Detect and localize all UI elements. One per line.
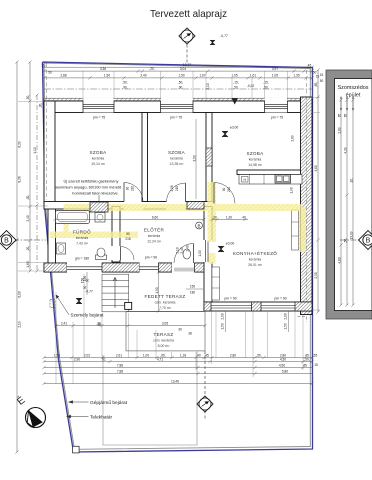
svg-text:csm. kerámia: csm. kerámia [153, 339, 174, 343]
svg-text:,50,: ,50, [233, 85, 238, 89]
bottom dim row 3 [42, 366, 312, 369]
szoba2 interior dim [195, 119, 197, 199]
door arc szoba2 [167, 183, 186, 202]
kitchen bottom hatched block left [204, 302, 211, 311]
svg-text:pm = 75: pm = 75 [271, 116, 283, 120]
svg-text:7,88: 7,88 [117, 369, 123, 373]
neighbour top small arrows [340, 97, 354, 111]
door arc furdo [121, 247, 135, 261]
svg-text:13,09: 13,09 [350, 231, 354, 239]
door arc konyha [214, 183, 235, 204]
svg-text:2,40: 2,40 [140, 74, 146, 78]
svg-text:2,00: 2,00 [221, 313, 225, 319]
bathtub [56, 211, 90, 224]
svg-text:kerámia: kerámia [148, 234, 161, 238]
svg-text:kerámia: kerámia [76, 236, 89, 240]
svg-text:,15,: ,15, [233, 81, 238, 85]
svg-text:,55: ,55 [313, 353, 318, 357]
kitchen counter [239, 175, 302, 185]
left wall top section [44, 101, 55, 207]
bottom wall entrance opening [67, 262, 102, 272]
svg-text:±0,00: ±0,00 [226, 242, 235, 246]
svg-text:2,10: 2,10 [206, 83, 210, 89]
kitchen bottom hatched pillar [252, 302, 262, 311]
svg-text:Új szerelt kettősfalú gázkémén: Új szerelt kettősfalú gázkémény [64, 179, 119, 184]
svg-text:1,18: 1,18 [180, 353, 186, 357]
bottom wall main [44, 263, 211, 272]
svg-text:85: 85 [338, 114, 342, 118]
szoba3 bottom wall [237, 170, 302, 175]
entrance door opening in bottom wall [172, 262, 195, 272]
svg-text:26,01 m²: 26,01 m² [248, 263, 263, 267]
svg-text:7,43 m²: 7,43 m² [76, 242, 89, 246]
fedett terasz vertical dim [158, 272, 160, 311]
svg-text:45: 45 [303, 363, 307, 367]
kitchen west wall [204, 207, 212, 312]
survey marker top [179, 28, 195, 63]
svg-text:,50,: ,50, [122, 81, 127, 85]
svg-text:,20,: ,20, [26, 246, 30, 251]
svg-text:2,88: 2,88 [60, 74, 66, 78]
bottom wall hatched block 2 [102, 263, 140, 272]
svg-text:210: 210 [227, 187, 231, 193]
hob [242, 177, 249, 183]
svg-text:2,00: 2,00 [284, 313, 288, 319]
svg-text:kerámia: kerámia [92, 157, 105, 161]
extension lines bottom [56, 274, 312, 384]
svg-text:4,71: 4,71 [157, 357, 163, 361]
svg-text:8,36: 8,36 [18, 176, 22, 182]
fedett terasz slab edge [129, 310, 204, 312]
svg-text:2,10: 2,10 [176, 247, 180, 253]
svg-text:40: 40 [242, 215, 246, 219]
corridor wall opening szoba2 door [166, 201, 186, 210]
terasz outline [126, 311, 205, 351]
neighbour building outer wall [326, 70, 372, 319]
svg-text:pm = 75: pm = 75 [170, 116, 182, 120]
svg-text:7,70 m²: 7,70 m² [159, 306, 172, 310]
svg-text:-0,77: -0,77 [220, 34, 228, 38]
level marker konyha [218, 242, 234, 253]
svg-text:,50,: ,50, [344, 238, 348, 243]
svg-text:2,80: 2,80 [230, 353, 236, 357]
kitchen bottom window 2 [261, 305, 295, 307]
svg-text:20: 20 [213, 215, 217, 219]
section line B-B [13, 239, 46, 241]
yellow band bathroom [50, 232, 138, 239]
svg-text:1,50: 1,50 [54, 353, 60, 357]
svg-text:90: 90 [222, 188, 226, 192]
dashed setback line right [306, 70, 308, 300]
svg-text:2,40: 2,40 [186, 245, 190, 251]
bottom wall hatched block 3 [159, 263, 173, 272]
svg-text:90: 90 [126, 187, 130, 191]
svg-text:90: 90 [126, 232, 130, 236]
bottom wall hatched block 4 [195, 263, 212, 272]
extension lines left [18, 102, 48, 272]
svg-text:6,39: 6,39 [18, 141, 22, 147]
svg-text:1,90: 1,90 [290, 187, 294, 193]
svg-text:,85,: ,85, [314, 82, 318, 87]
svg-text:15: 15 [314, 363, 318, 367]
section marker B right [359, 231, 372, 250]
chimney hatched block [90, 202, 108, 212]
svg-text:,20,: ,20, [149, 67, 154, 71]
svg-text:FÜRDŐ: FÜRDŐ [73, 229, 91, 235]
svg-text:SZOBA: SZOBA [168, 150, 186, 155]
svg-text:pm = 90: pm = 90 [145, 256, 157, 260]
svg-text:1,50: 1,50 [155, 287, 159, 293]
svg-text:Személy bejárat: Személy bejárat [71, 313, 105, 318]
svg-text:1,50: 1,50 [178, 74, 184, 78]
svg-text:1,00: 1,00 [198, 250, 202, 256]
svg-text:gm = 180: gm = 180 [75, 257, 89, 261]
section marker B left [0, 231, 16, 250]
svg-text:3,97: 3,97 [272, 67, 278, 71]
svg-text:É: É [14, 393, 28, 408]
svg-text:30: 30 [178, 328, 182, 332]
entrance door arc [174, 244, 194, 264]
plot boundary gray line (telekhatar) [44, 63, 310, 449]
svg-text:,90,: ,90, [178, 85, 183, 89]
bottom wall hatched block 1 [44, 263, 67, 272]
svg-text:13,46: 13,46 [171, 379, 179, 383]
svg-text:1,67: 1,67 [199, 74, 205, 78]
gate marker on left boundary [50, 300, 55, 308]
compass [14, 393, 45, 427]
svg-text:2,89: 2,89 [291, 135, 295, 141]
svg-text:150: 150 [190, 285, 196, 289]
svg-text:,45: ,45 [307, 64, 312, 68]
svg-text:kerámia: kerámia [249, 158, 262, 162]
svg-text:B: B [4, 237, 9, 244]
svg-text:218: 218 [125, 237, 131, 241]
svg-text:4,50: 4,50 [280, 357, 286, 361]
insulation strip above top wall [44, 98, 302, 101]
door arc szoba1 [124, 183, 143, 202]
svg-text:kerámia: kerámia [170, 157, 183, 161]
svg-text:85: 85 [344, 114, 348, 118]
svg-text:,50,: ,50, [304, 357, 309, 361]
svg-text:13,35 m²: 13,35 m² [170, 162, 185, 166]
svg-text:2,19: 2,19 [18, 321, 22, 327]
svg-text:pm = 90: pm = 90 [274, 297, 286, 301]
svg-text:Gépjármű bejárat: Gépjármű bejárat [90, 400, 128, 406]
level marker top [210, 34, 228, 45]
svg-text:45: 45 [205, 353, 209, 357]
svg-text:40: 40 [197, 353, 201, 357]
svg-text:1,50: 1,50 [221, 323, 225, 329]
kitchen bottom window 1 [211, 305, 252, 307]
furdo door opening [111, 246, 120, 260]
top dimension row 1 overall [42, 66, 313, 69]
radiator eloter [183, 249, 191, 259]
svg-text:1,50: 1,50 [104, 74, 110, 78]
window W3 [265, 101, 288, 113]
kitchen bottom wall [204, 302, 312, 311]
svg-text:7,86: 7,86 [117, 363, 123, 367]
sink [275, 175, 291, 184]
svg-text:2,40: 2,40 [180, 247, 184, 253]
svg-text:210: 210 [175, 186, 179, 192]
svg-text:1,35: 1,35 [293, 74, 299, 78]
svg-text:5,80: 5,80 [282, 369, 288, 373]
svg-text:3,50: 3,50 [193, 155, 197, 161]
insulation strip gaps at windows [83, 98, 113, 101]
svg-text:B: B [366, 237, 371, 244]
garden faint rectangle [103, 351, 197, 445]
wall szoba1-szoba2 [142, 113, 148, 202]
window W1 [83, 101, 114, 113]
svg-text:10,: 10, [350, 178, 354, 183]
svg-text:15: 15 [41, 64, 45, 68]
neighbour building interior [335, 79, 372, 311]
svg-text:,90,: ,90, [122, 85, 127, 89]
top dimension row 2 [42, 70, 313, 73]
svg-text:,30,: ,30, [39, 103, 43, 108]
plot boundary blue line [43, 62, 313, 452]
flue marker on top wall [232, 98, 239, 104]
corridor wall opening szoba1 door [124, 201, 144, 210]
kitchen cabinets right wall [292, 210, 299, 250]
svg-text:1,26: 1,26 [170, 185, 174, 191]
bottom dim row 4 [42, 372, 312, 375]
svg-text:csm. kerámia: csm. kerámia [155, 301, 176, 305]
svg-text:SZOBA: SZOBA [246, 151, 264, 156]
svg-text:19,14 m²: 19,14 m² [91, 162, 106, 166]
svg-text:2,89: 2,89 [338, 127, 342, 133]
svg-text:14,98 m²: 14,98 m² [248, 163, 263, 167]
svg-text:4,50: 4,50 [279, 363, 285, 367]
small circled B eloter [196, 222, 203, 229]
terrace column [125, 302, 132, 309]
corridor wall opening konyha door [214, 201, 235, 210]
right wall hatched [301, 97, 313, 315]
extension lines right [312, 97, 320, 310]
svg-text:TERASZ: TERASZ [154, 332, 174, 337]
svg-text:FEDETT TERASZ: FEDETT TERASZ [145, 294, 186, 299]
svg-text:50: 50 [320, 79, 324, 83]
svg-text:-0,02: -0,02 [247, 84, 254, 88]
yellow strip furdo/szoba1 wall [64, 204, 69, 232]
fedett terasz dim row [54, 324, 206, 327]
corner marker box bottom-left [73, 446, 80, 453]
washing machine [95, 213, 105, 223]
kitchen cabinets left [212, 267, 220, 300]
svg-text:Tervezett alaprajz: Tervezett alaprajz [150, 8, 227, 20]
svg-text:4,39: 4,39 [344, 147, 348, 153]
svg-text:1,61: 1,61 [250, 74, 256, 78]
left vertical dim chain outer [15, 60, 38, 453]
svg-text:,50,: ,50, [256, 353, 261, 357]
svg-text:,30,: ,30, [26, 195, 30, 200]
bottom dim row 2 [42, 360, 313, 363]
svg-text:homlokzati falon kivezetve: homlokzati falon kivezetve [72, 191, 117, 196]
svg-text:6,00: 6,00 [18, 291, 22, 297]
kitchen west wall opening [203, 240, 212, 262]
extension lines top [44, 64, 312, 98]
svg-text:4,36: 4,36 [100, 67, 106, 71]
svg-text:±0,00: ±0,00 [230, 126, 239, 130]
svg-text:1,68: 1,68 [26, 261, 30, 267]
svg-text:3,05: 3,05 [162, 322, 168, 326]
svg-text:kerámia: kerámia [249, 258, 262, 262]
neighbour interior dim chains [339, 98, 354, 306]
svg-text:KONYHA+ÉTKEZŐ: KONYHA+ÉTKEZŐ [233, 250, 277, 256]
corridor wall [44, 202, 216, 210]
svg-text:2,90: 2,90 [74, 357, 80, 361]
entrance interior vertical dims [86, 272, 88, 295]
corridor wall hatched pier [187, 202, 204, 210]
yellow strip right wall inside [299, 207, 306, 252]
right edge dim chain [316, 68, 319, 313]
eloter width dim [53, 218, 205, 221]
entrance steps [102, 274, 129, 312]
bottom dim row 5 [42, 382, 313, 385]
level marker terasz [76, 290, 93, 305]
bottom dim row 1 [42, 356, 313, 359]
svg-text:90: 90 [83, 286, 87, 290]
washbasin [57, 243, 66, 254]
svg-text:12,24 m²: 12,24 m² [147, 240, 162, 244]
svg-text:2,40: 2,40 [26, 215, 30, 221]
svg-text:6,60: 6,60 [152, 215, 158, 219]
pocket door hatch szoba3 [206, 148, 212, 166]
level marker szoba3 [222, 126, 238, 138]
svg-text:,50,: ,50, [26, 95, 30, 100]
toilet [96, 248, 107, 260]
svg-text:alumínium anyagú, 60/100 mm mé: alumínium anyagú, 60/100 mm méretű [55, 185, 122, 190]
svg-text:SZOBA: SZOBA [89, 150, 107, 155]
svg-text:1,30: 1,30 [226, 215, 232, 219]
window axis dash-dot line [44, 88, 312, 90]
wall szoba2-szoba3 [206, 113, 212, 202]
svg-text:1,05: 1,05 [272, 74, 278, 78]
dashed setback line left [46, 63, 48, 200]
yellow demolition band under corridor wall [50, 182, 306, 264]
svg-text:2,61: 2,61 [116, 353, 122, 357]
svg-text:4,10: 4,10 [33, 147, 37, 153]
svg-text:2,30: 2,30 [314, 272, 318, 278]
svg-text:180: 180 [190, 291, 196, 295]
svg-text:2,02: 2,02 [84, 353, 90, 357]
svg-text:,50,: ,50, [178, 81, 183, 85]
top dimension row 3 [42, 76, 313, 79]
svg-text:8,00 m²: 8,00 m² [158, 344, 171, 348]
svg-text:Szomszédos: Szomszédos [338, 85, 369, 91]
svg-text:B: B [197, 223, 200, 228]
svg-text:210: 210 [131, 186, 135, 192]
svg-text:Telekhatár: Telekhatár [90, 415, 113, 421]
svg-text:150: 150 [83, 276, 87, 282]
kitchen bottom hatched block right [295, 302, 312, 311]
svg-text:,50,: ,50, [263, 85, 268, 89]
svg-text:50: 50 [48, 71, 52, 75]
svg-text:1,05: 1,05 [231, 74, 237, 78]
svg-text:ELŐTÉR: ELŐTÉR [144, 227, 165, 233]
svg-text:2,41: 2,41 [61, 322, 67, 326]
window W2 [161, 101, 194, 113]
svg-text:4,60: 4,60 [314, 165, 318, 171]
yellow strip eloter/konyha wall [208, 182, 217, 242]
svg-text:38: 38 [97, 323, 101, 327]
svg-text:,15,: ,15, [263, 81, 268, 85]
svg-text:4,60: 4,60 [338, 257, 342, 263]
corner bracket right wall bottom [298, 317, 307, 322]
west wall bathroom section [48, 207, 56, 272]
svg-text:pm = 90: pm = 90 [224, 297, 236, 301]
svg-text:1,00: 1,00 [143, 353, 149, 357]
top wall [44, 101, 302, 113]
svg-text:1,50: 1,50 [284, 323, 288, 329]
konyha small dim row [210, 218, 248, 221]
svg-text:pm = 75: pm = 75 [93, 116, 105, 120]
bottom wall window [140, 262, 159, 272]
svg-text:10,: 10, [102, 357, 107, 361]
svg-text:38: 38 [188, 332, 192, 336]
steps arrow [113, 278, 117, 309]
svg-text:3,04: 3,04 [180, 67, 186, 71]
svg-text:15: 15 [320, 73, 324, 77]
wall furdo-eloter [112, 207, 120, 263]
survey marker bottom [197, 351, 213, 420]
